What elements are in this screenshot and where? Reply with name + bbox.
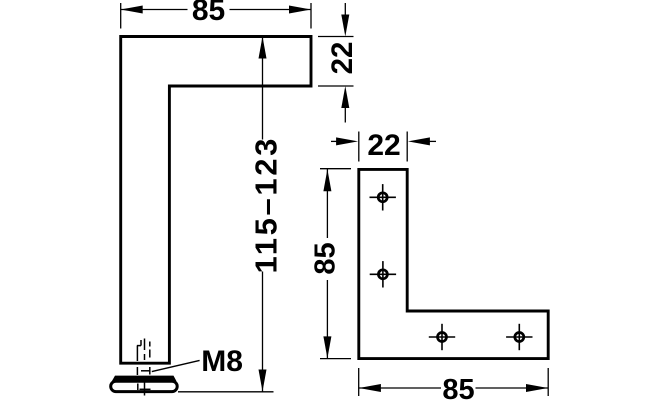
svg-text:115–123: 115–123 bbox=[249, 136, 284, 274]
dim 115-123 bbox=[178, 37, 274, 392]
dim 85 bracket left bbox=[320, 169, 351, 359]
svg-text:85: 85 bbox=[442, 374, 474, 400]
hole fourth (horizontal arm, right) bbox=[506, 324, 532, 350]
right figure: bracket outline bbox=[359, 169, 548, 358]
dim 85 bracket bottom bbox=[359, 368, 549, 396]
svg-text:22: 22 bbox=[326, 42, 359, 75]
dim 22 bracket top bbox=[331, 132, 436, 162]
hole third (horizontal arm, left) bbox=[429, 324, 455, 350]
left figure: furniture leg outline bbox=[121, 37, 311, 364]
threaded stem hidden lines bbox=[137, 339, 151, 396]
svg-text:22: 22 bbox=[367, 129, 400, 162]
dim 22 left figure bbox=[318, 3, 354, 123]
hole second (vertical arm, lower) bbox=[370, 261, 396, 287]
dim 85 top bbox=[121, 3, 311, 29]
svg-text:85: 85 bbox=[192, 0, 225, 27]
M8 leader line bbox=[152, 360, 200, 371]
foot pill bbox=[111, 381, 178, 391]
hole top (vertical arm, upper) bbox=[370, 184, 396, 210]
foot mounting plate (solid) bbox=[112, 376, 177, 382]
svg-text:85: 85 bbox=[309, 242, 341, 274]
svg-text:M8: M8 bbox=[201, 345, 243, 378]
